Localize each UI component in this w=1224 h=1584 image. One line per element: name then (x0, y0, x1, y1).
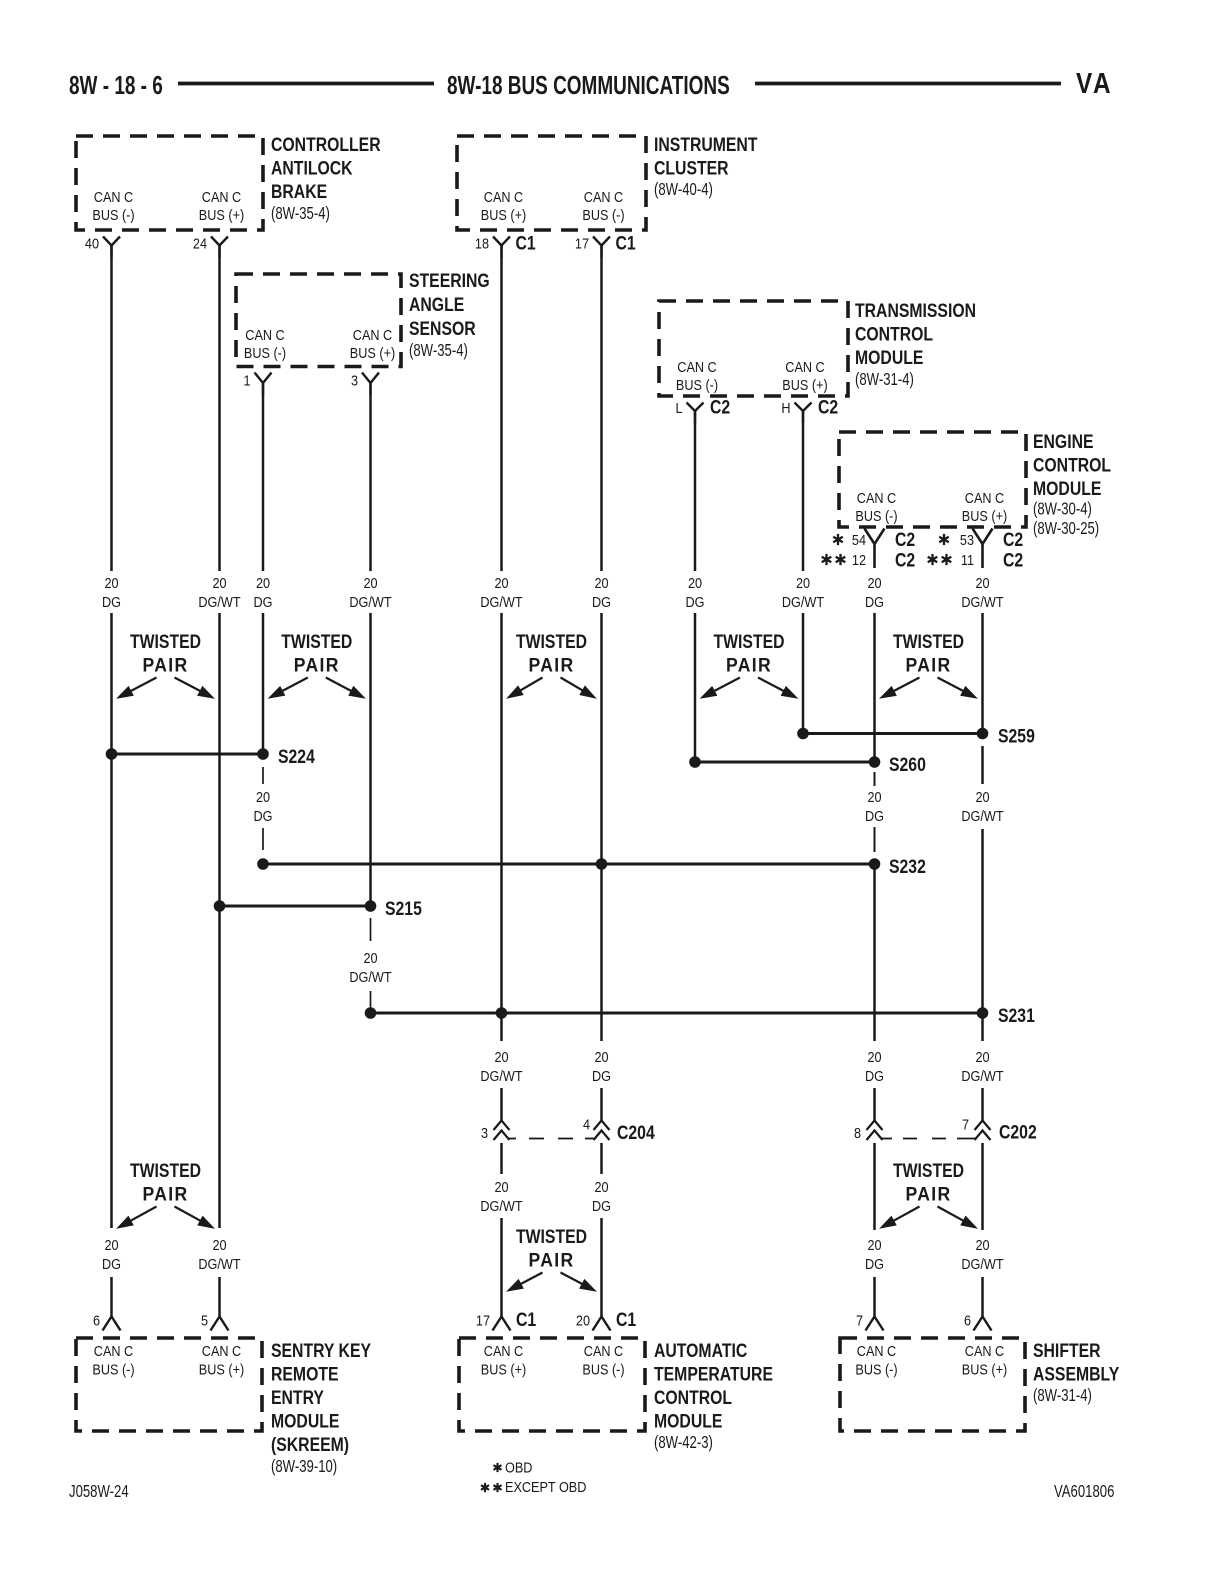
pin 7 of shifter assembly (856, 1311, 884, 1330)
svg-text:DG/WT: DG/WT (961, 1067, 1004, 1084)
label TWISTED PAIR at x=165.5 (118, 630, 214, 698)
svg-text:S215: S215 (385, 897, 422, 919)
wire CAN C bus (+) DG/WT col5 cluster->S231->C204->ATC (500, 246, 503, 1317)
svg-text:S224: S224 (278, 745, 315, 767)
svg-text:8W - 18 - 6: 8W - 18 - 6 (69, 70, 163, 100)
svg-text:20: 20 (212, 574, 226, 591)
wire label 20 DG/WT col10 bottom (961, 1236, 1004, 1272)
label TWISTED PAIR at x=316.8 (269, 630, 365, 698)
label TWISTED PAIR at x=551.5 (508, 1225, 596, 1291)
header rule right (755, 82, 1061, 86)
svg-text:DG: DG (102, 1255, 121, 1272)
svg-text:DG: DG (865, 593, 884, 610)
svg-text:8: 8 (854, 1124, 861, 1141)
wire label 20 DG/WT col5 top (480, 574, 523, 610)
svg-text:BUS (-): BUS (-) (92, 206, 134, 223)
wire CAN C bus (-) DG col7 TCM->S260 (694, 411, 697, 762)
wire label 20 DG col3 top (254, 574, 273, 610)
svg-text:C2: C2 (710, 396, 730, 418)
wire CAN C bus (-) DG col9 ECM->S260->S232->C202->shifter (873, 613, 876, 1317)
svg-text:CAN C: CAN C (584, 188, 623, 205)
splice S215 horizontal link (214, 897, 422, 919)
svg-text:DG/WT: DG/WT (961, 593, 1004, 610)
svg-text:20: 20 (975, 574, 989, 591)
svg-text:H: H (781, 399, 790, 416)
svg-text:20: 20 (975, 1236, 989, 1253)
module U4 TRANSMISSION CONTROL MODULE dashed box (659, 299, 976, 396)
svg-text:20: 20 (594, 1178, 608, 1195)
splice S224 horizontal link (106, 745, 315, 767)
wire CAN C bus (+) DG/WT col4 SAS->S215->S231 (369, 383, 372, 1013)
svg-text:TWISTED: TWISTED (516, 630, 587, 652)
svg-text:DG/WT: DG/WT (198, 593, 241, 610)
svg-text:S260: S260 (889, 753, 926, 775)
svg-text:DG: DG (102, 593, 121, 610)
svg-text:20: 20 (104, 1236, 118, 1253)
svg-text:DG: DG (865, 807, 884, 824)
svg-text:20: 20 (975, 788, 989, 805)
module U7 AUTOMATIC TEMPERATURE CONTROL MODULE dashed box (459, 1338, 773, 1453)
svg-text:S231: S231 (998, 1004, 1035, 1026)
svg-text:20: 20 (494, 574, 508, 591)
svg-text:C202: C202 (999, 1121, 1037, 1143)
wire label 20 DG col9 top (865, 574, 884, 610)
svg-text:CAN C: CAN C (584, 1342, 623, 1359)
svg-text:DG/WT: DG/WT (480, 1067, 523, 1084)
svg-text:ENTRY: ENTRY (271, 1386, 324, 1408)
svg-text:(8W-39-10): (8W-39-10) (271, 1457, 337, 1476)
svg-text:C2: C2 (1003, 528, 1023, 550)
svg-text:C1: C1 (616, 232, 636, 254)
svg-text:20: 20 (867, 574, 881, 591)
wire label 20 DG col1 top (102, 574, 121, 610)
wire label 20 DG col9 below S260 (865, 788, 884, 824)
svg-text:L: L (675, 399, 682, 416)
svg-text:SENSOR: SENSOR (409, 317, 476, 339)
svg-text:C1: C1 (616, 1308, 636, 1330)
connector C204 pins 3 and 4 (481, 1115, 655, 1143)
svg-text:CONTROL: CONTROL (1033, 454, 1111, 476)
svg-text:CAN C: CAN C (484, 1342, 523, 1359)
svg-text:20: 20 (688, 574, 702, 591)
svg-text:BUS (+): BUS (+) (350, 344, 395, 361)
svg-text:20: 20 (494, 1048, 508, 1065)
pin *54/**12 C2 of ECM (822, 528, 916, 570)
svg-text:C1: C1 (516, 232, 536, 254)
svg-text:DG: DG (592, 1197, 611, 1214)
wire label 20 DG/WT col10 below S259 (961, 788, 1004, 824)
wire label 20 DG/WT col4 top (349, 574, 392, 610)
pin 24 of ABS connector (193, 234, 228, 257)
svg-text:S259: S259 (998, 725, 1035, 747)
svg-text:17: 17 (476, 1311, 490, 1328)
svg-text:40: 40 (85, 234, 99, 251)
svg-text:CONTROLLER: CONTROLLER (271, 133, 381, 155)
pin 1 of steering angle sensor (243, 371, 271, 395)
svg-text:(SKREEM): (SKREEM) (271, 1433, 349, 1455)
svg-text:DG/WT: DG/WT (782, 593, 825, 610)
svg-text:20: 20 (494, 1178, 508, 1195)
footnote ** EXCEPT OBD (481, 1478, 586, 1495)
svg-text:(8W-35-4): (8W-35-4) (409, 341, 468, 360)
svg-text:BUS (+): BUS (+) (962, 507, 1007, 524)
svg-text:ANGLE: ANGLE (409, 293, 464, 315)
svg-text:VA: VA (1076, 67, 1113, 99)
svg-text:C1: C1 (516, 1308, 536, 1330)
svg-text:DG/WT: DG/WT (961, 1255, 1004, 1272)
splice S260 horizontal link (690, 753, 926, 775)
svg-text:DG: DG (592, 593, 611, 610)
svg-text:7: 7 (856, 1311, 863, 1328)
svg-text:DG/WT: DG/WT (961, 807, 1004, 824)
svg-text:BUS (-): BUS (-) (92, 1360, 134, 1377)
svg-text:C2: C2 (895, 528, 915, 550)
svg-text:MODULE: MODULE (855, 346, 924, 368)
module U6 SKREEM dashed box (76, 1338, 371, 1477)
svg-text:5: 5 (201, 1311, 208, 1328)
svg-text:MODULE: MODULE (271, 1410, 340, 1432)
svg-text:6: 6 (93, 1311, 100, 1328)
svg-text:CAN C: CAN C (857, 1342, 896, 1359)
svg-text:DG: DG (254, 593, 273, 610)
svg-text:20: 20 (363, 949, 377, 966)
svg-text:PAIR: PAIR (294, 654, 340, 676)
module U2 STEERING ANGLE SENSOR dashed box (236, 269, 490, 366)
pin 6 of shifter assembly (964, 1311, 992, 1330)
pin 20 C1 of ATC module (576, 1308, 636, 1330)
svg-text:CAN C: CAN C (94, 188, 133, 205)
svg-text:VA601806: VA601806 (1054, 1482, 1115, 1501)
svg-text:BUS (-): BUS (-) (582, 206, 624, 223)
svg-text:CAN C: CAN C (857, 489, 896, 506)
svg-text:CAN C: CAN C (965, 1342, 1004, 1359)
wire label 20 DG/WT col5 below C204 (480, 1178, 523, 1214)
wire label 20 DG/WT col5 below S231 (480, 1048, 523, 1084)
pin 18 C1 of instrument cluster (475, 232, 536, 258)
wire label 20 DG/WT col4 below S215 (349, 949, 392, 985)
svg-text:CAN C: CAN C (965, 489, 1004, 506)
svg-text:DG/WT: DG/WT (349, 593, 392, 610)
svg-text:CLUSTER: CLUSTER (654, 157, 729, 179)
svg-text:(8W-31-4): (8W-31-4) (855, 370, 914, 389)
wire label 20 DG/WT col2 bottom (198, 1236, 241, 1272)
module U3 INSTRUMENT CLUSTER dashed box (457, 133, 758, 230)
svg-text:TWISTED: TWISTED (893, 630, 964, 652)
svg-text:SENTRY KEY: SENTRY KEY (271, 1339, 371, 1361)
wire label 20 DG/WT col8 top (782, 574, 825, 610)
wire CAN C bus (+) DG/WT col8 TCM->S259 (802, 411, 805, 734)
svg-text:PAIR: PAIR (142, 1183, 188, 1205)
svg-text:S232: S232 (889, 855, 926, 877)
svg-text:DG/WT: DG/WT (349, 968, 392, 985)
svg-text:6: 6 (964, 1311, 971, 1328)
svg-text:BUS (+): BUS (+) (481, 206, 526, 223)
svg-text:BUS (+): BUS (+) (481, 1360, 526, 1377)
splice S259 horizontal link (798, 725, 1035, 747)
module U5 ENGINE CONTROL MODULE dashed box (839, 430, 1111, 538)
svg-text:TWISTED: TWISTED (516, 1225, 587, 1247)
pin 3 of steering angle sensor (351, 371, 379, 395)
pin 6 of SKREEM (93, 1311, 121, 1330)
pin 5 of SKREEM (201, 1311, 229, 1330)
svg-text:DG/WT: DG/WT (480, 593, 523, 610)
label TWISTED PAIR at x=165.5 (118, 1159, 214, 1228)
pin 40 of ABS connector (85, 234, 120, 257)
wire CAN C bus (-) DG col6 cluster->S232->C204->ATC (600, 246, 603, 1317)
wire label 20 DG col3 below S224 (254, 788, 273, 824)
svg-text:20: 20 (867, 788, 881, 805)
svg-text:BUS (+): BUS (+) (199, 1360, 244, 1377)
svg-text:(8W-30-25): (8W-30-25) (1033, 519, 1099, 538)
svg-text:BUS (-): BUS (-) (582, 1360, 624, 1377)
svg-text:DG: DG (592, 1067, 611, 1084)
svg-text:7: 7 (962, 1115, 969, 1132)
svg-text:CAN C: CAN C (202, 1342, 241, 1359)
footer drawing number VA601806 (1054, 1482, 1115, 1501)
wire label 20 DG col9 bottom (865, 1236, 884, 1272)
svg-text:20: 20 (576, 1311, 590, 1328)
wire label 20 DG col1 bottom (102, 1236, 121, 1272)
svg-text:CONTROL: CONTROL (654, 1386, 732, 1408)
svg-text:DG: DG (865, 1255, 884, 1272)
header title 8W-18 BUS COMMUNICATIONS (447, 70, 730, 100)
svg-text:20: 20 (256, 788, 270, 805)
svg-text:EXCEPT OBD: EXCEPT OBD (505, 1478, 586, 1495)
svg-text:DG/WT: DG/WT (480, 1197, 523, 1214)
pin H C2 of TCM (781, 396, 838, 423)
svg-text:C204: C204 (617, 1121, 655, 1143)
svg-text:BUS (-): BUS (-) (855, 507, 897, 524)
svg-text:18: 18 (475, 234, 489, 251)
svg-text:BUS (-): BUS (-) (855, 1360, 897, 1377)
svg-text:OBD: OBD (505, 1458, 532, 1475)
svg-text:(8W-30-4): (8W-30-4) (1033, 500, 1092, 519)
svg-text:20: 20 (256, 574, 270, 591)
svg-text:54: 54 (852, 531, 866, 548)
footer drawing number J058W-24 (69, 1482, 129, 1501)
svg-text:PAIR: PAIR (905, 1183, 951, 1205)
module U1 CONTROLLER ANTILOCK BRAKE dashed box (76, 133, 381, 230)
svg-text:CAN C: CAN C (202, 188, 241, 205)
svg-text:BUS (+): BUS (+) (199, 206, 244, 223)
svg-text:8W-18 BUS COMMUNICATIONS: 8W-18 BUS COMMUNICATIONS (447, 70, 730, 100)
svg-text:CONTROL: CONTROL (855, 323, 933, 345)
svg-text:DG/WT: DG/WT (198, 1255, 241, 1272)
wire label 20 DG col6 top (592, 574, 611, 610)
label TWISTED PAIR at x=928.5 (881, 630, 977, 698)
svg-text:PAIR: PAIR (528, 1249, 574, 1271)
svg-text:(8W-40-4): (8W-40-4) (654, 180, 713, 199)
svg-text:ASSEMBLY: ASSEMBLY (1033, 1363, 1119, 1385)
svg-text:DG: DG (686, 593, 705, 610)
svg-text:53: 53 (960, 531, 974, 548)
wire CAN C bus (+) DG/WT col10 ECM->S259->S231->C202->shifter (981, 613, 984, 1317)
svg-text:CAN C: CAN C (245, 326, 284, 343)
module U8 SHIFTER ASSEMBLY dashed box (840, 1338, 1119, 1431)
svg-text:17: 17 (575, 234, 589, 251)
pin *53/**11 C2 of ECM (928, 528, 1024, 570)
footnote * OBD (494, 1458, 533, 1475)
svg-text:BUS (-): BUS (-) (244, 344, 286, 361)
svg-text:MODULE: MODULE (654, 1410, 723, 1432)
pin 17 C1 of instrument cluster (575, 232, 636, 258)
svg-text:4: 4 (583, 1115, 590, 1132)
wire label 20 DG col7 top (686, 574, 705, 610)
header vehicle code VA (1076, 67, 1113, 99)
svg-text:TWISTED: TWISTED (713, 630, 784, 652)
header rule left (178, 82, 434, 86)
svg-text:TWISTED: TWISTED (893, 1159, 964, 1181)
wire CAN C bus (-) DG col3 SAS->S224->S232 (262, 383, 265, 850)
svg-text:J058W-24: J058W-24 (69, 1482, 129, 1501)
svg-text:20: 20 (363, 574, 377, 591)
wire CAN C bus (+) DG/WT col2 ABS->S215->SKREEM (218, 246, 221, 1317)
svg-text:REMOTE: REMOTE (271, 1363, 339, 1385)
wire label 20 DG col9 above C202 (865, 1048, 884, 1084)
svg-text:PAIR: PAIR (905, 654, 951, 676)
label TWISTED PAIR at x=928.5 (881, 1159, 977, 1228)
svg-text:PAIR: PAIR (528, 654, 574, 676)
svg-text:BUS (+): BUS (+) (962, 1360, 1007, 1377)
wire label 20 DG/WT col2 top (198, 574, 241, 610)
svg-text:CAN C: CAN C (94, 1342, 133, 1359)
svg-text:MODULE: MODULE (1033, 477, 1102, 499)
svg-text:BRAKE: BRAKE (271, 180, 327, 202)
svg-text:TEMPERATURE: TEMPERATURE (654, 1363, 773, 1385)
svg-text:INSTRUMENT: INSTRUMENT (654, 133, 758, 155)
svg-text:20: 20 (594, 574, 608, 591)
svg-text:PAIR: PAIR (726, 654, 772, 676)
svg-text:20: 20 (975, 1048, 989, 1065)
svg-text:11: 11 (961, 551, 974, 568)
svg-text:CAN C: CAN C (677, 358, 716, 375)
svg-text:(8W-31-4): (8W-31-4) (1033, 1386, 1092, 1405)
svg-text:BUS (+): BUS (+) (782, 376, 827, 393)
svg-text:AUTOMATIC: AUTOMATIC (654, 1339, 747, 1361)
svg-text:DG: DG (865, 1067, 884, 1084)
svg-text:C2: C2 (818, 396, 838, 418)
wire label 20 DG/WT col10 above C202 (961, 1048, 1004, 1084)
svg-text:20: 20 (867, 1236, 881, 1253)
svg-text:20: 20 (212, 1236, 226, 1253)
svg-text:(8W-35-4): (8W-35-4) (271, 204, 330, 223)
splice S231 horizontal link (365, 1004, 1035, 1026)
svg-text:CAN C: CAN C (484, 188, 523, 205)
svg-text:DG: DG (254, 807, 273, 824)
svg-text:TWISTED: TWISTED (130, 1159, 201, 1181)
svg-text:C2: C2 (1003, 549, 1023, 571)
svg-text:CAN C: CAN C (785, 358, 824, 375)
wire label 20 DG/WT col10 top (961, 574, 1004, 610)
svg-text:3: 3 (351, 371, 358, 388)
svg-text:ANTILOCK: ANTILOCK (271, 157, 353, 179)
svg-text:20: 20 (594, 1048, 608, 1065)
svg-text:SHIFTER: SHIFTER (1033, 1339, 1101, 1361)
wire CAN C bus (-) DG col1 ABS->S224->SKREEM (110, 246, 113, 1317)
label TWISTED PAIR at x=551.5 (508, 630, 596, 698)
svg-text:20: 20 (796, 574, 810, 591)
wire label 20 DG col6 below S232 (592, 1048, 611, 1084)
pin 17 C1 of ATC module (476, 1308, 536, 1330)
connector C202 pins 8 and 7 (854, 1115, 1037, 1142)
svg-text:1: 1 (243, 371, 250, 388)
svg-text:3: 3 (481, 1124, 488, 1141)
svg-text:24: 24 (193, 234, 207, 251)
svg-text:CAN C: CAN C (353, 326, 392, 343)
svg-text:BUS (-): BUS (-) (676, 376, 718, 393)
splice S232 horizontal link (258, 855, 926, 877)
header page number 8W - 18 - 6 (69, 70, 163, 100)
label TWISTED PAIR at x=749.0 (701, 630, 797, 698)
svg-text:TWISTED: TWISTED (130, 630, 201, 652)
wire label 20 DG col6 below C204 (592, 1178, 611, 1214)
svg-text:12: 12 (852, 551, 866, 568)
svg-text:STEERING: STEERING (409, 269, 490, 291)
svg-text:ENGINE: ENGINE (1033, 430, 1094, 452)
svg-text:20: 20 (104, 574, 118, 591)
svg-text:C2: C2 (895, 549, 915, 571)
svg-text:(8W-42-3): (8W-42-3) (654, 1433, 713, 1452)
svg-text:TRANSMISSION: TRANSMISSION (855, 299, 976, 321)
svg-text:20: 20 (867, 1048, 881, 1065)
pin L C2 of TCM (675, 396, 730, 423)
svg-text:TWISTED: TWISTED (281, 630, 352, 652)
svg-text:PAIR: PAIR (142, 654, 188, 676)
